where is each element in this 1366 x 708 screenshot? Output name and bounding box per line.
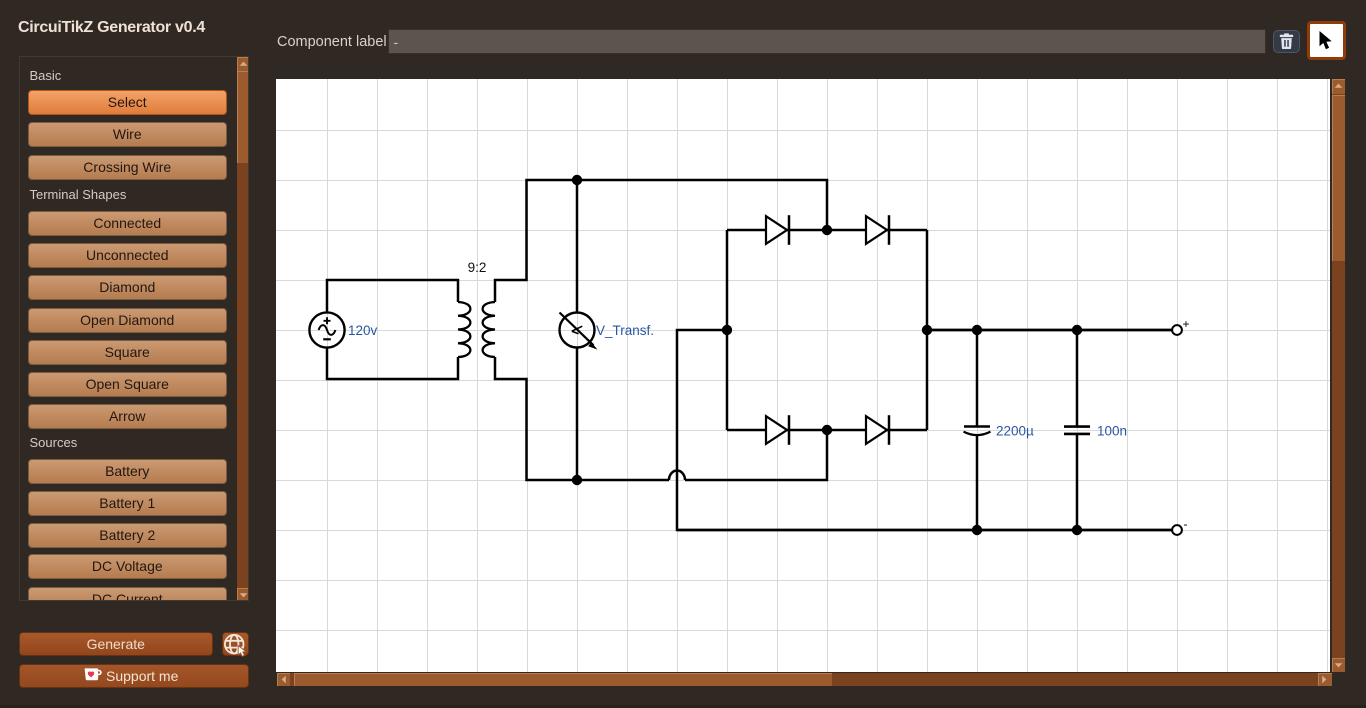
svg-text:V_Transf.: V_Transf. [596, 323, 654, 338]
svg-text:100n: 100n [1097, 424, 1127, 439]
svg-text:-: - [1184, 517, 1188, 531]
svg-text:120v: 120v [348, 323, 378, 338]
svg-text:2200µ: 2200µ [996, 424, 1034, 439]
svg-text:+: + [1183, 317, 1190, 331]
svg-text:9:2: 9:2 [468, 260, 487, 275]
